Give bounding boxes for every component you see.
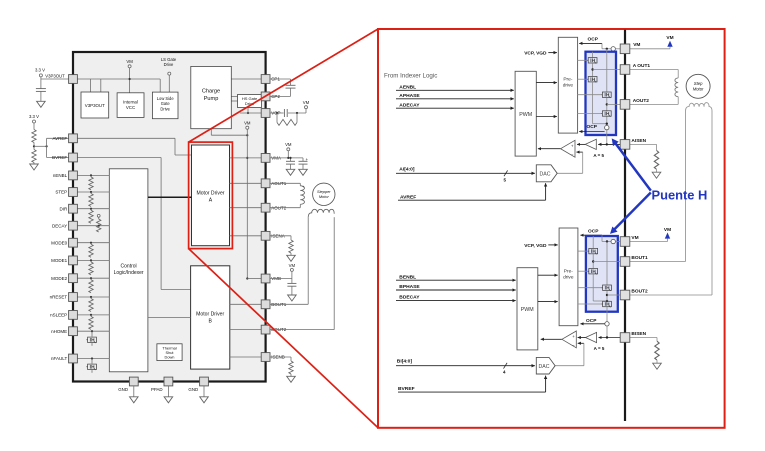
svg-text:nFAULT: nFAULT xyxy=(51,356,67,361)
svg-text:3.3 V: 3.3 V xyxy=(29,114,39,119)
svg-text:BPHASE: BPHASE xyxy=(399,284,420,290)
svg-text:From Indexer Logic: From Indexer Logic xyxy=(384,73,437,80)
svg-text:VM: VM xyxy=(244,120,251,125)
svg-text:VM: VM xyxy=(664,227,671,233)
svg-text:VM: VM xyxy=(631,235,638,241)
svg-text:AI[4:0]: AI[4:0] xyxy=(399,166,415,172)
svg-text:VCP, VGD: VCP, VGD xyxy=(524,243,547,249)
svg-text:OCP: OCP xyxy=(588,229,599,235)
svg-text:+: + xyxy=(572,334,575,339)
svg-text:−: − xyxy=(572,342,575,347)
svg-text:OCP: OCP xyxy=(587,124,598,130)
svg-text:Logic/Indexer: Logic/Indexer xyxy=(114,270,144,276)
svg-text:drive: drive xyxy=(563,274,574,280)
svg-text:AENBL: AENBL xyxy=(399,84,416,90)
svg-text:AOUT2: AOUT2 xyxy=(633,98,650,104)
svg-text:AVREF: AVREF xyxy=(53,136,68,141)
svg-text:BDECAY: BDECAY xyxy=(399,295,420,301)
svg-text:B: B xyxy=(208,319,212,325)
svg-text:BVREF: BVREF xyxy=(398,386,415,392)
svg-text:PWM: PWM xyxy=(521,307,534,313)
svg-text:AVREF: AVREF xyxy=(400,194,416,200)
svg-text:Motor: Motor xyxy=(319,194,330,199)
svg-text:VCC: VCC xyxy=(126,105,135,110)
svg-text:DIR: DIR xyxy=(59,206,68,211)
svg-text:Puente H: Puente H xyxy=(652,188,708,203)
svg-text:A = 5: A = 5 xyxy=(594,346,605,351)
svg-text:STEP: STEP xyxy=(55,190,67,195)
svg-text:+: + xyxy=(571,143,574,148)
svg-text:V3P3OUT: V3P3OUT xyxy=(85,103,105,108)
svg-text:Control: Control xyxy=(121,264,137,270)
svg-text:BOUT2: BOUT2 xyxy=(631,288,648,294)
svg-text:Motor Driver: Motor Driver xyxy=(196,312,224,318)
svg-text:A = 5: A = 5 xyxy=(593,153,604,158)
svg-text:GND: GND xyxy=(118,387,128,392)
svg-text:VM: VM xyxy=(303,100,310,105)
svg-text:Step: Step xyxy=(694,81,703,86)
svg-text:VM: VM xyxy=(666,35,673,41)
svg-text:Drive: Drive xyxy=(160,106,170,111)
svg-text:A OUT1: A OUT1 xyxy=(633,63,651,69)
svg-text:nSLEEP: nSLEEP xyxy=(50,313,67,318)
svg-text:V3P3OUT: V3P3OUT xyxy=(45,73,65,78)
svg-text:OCP: OCP xyxy=(586,318,597,324)
svg-text:BENBL: BENBL xyxy=(399,274,416,280)
svg-text:Pump: Pump xyxy=(204,96,219,102)
svg-text:Down: Down xyxy=(165,354,175,359)
svg-text:Pre-: Pre- xyxy=(563,77,572,83)
svg-text:Pre-: Pre- xyxy=(564,268,573,274)
svg-text:MODE0: MODE0 xyxy=(51,240,68,245)
svg-text:Motor: Motor xyxy=(693,87,704,92)
svg-text:VCP, VGD: VCP, VGD xyxy=(524,51,547,57)
svg-text:DAC: DAC xyxy=(540,172,551,178)
svg-text:nRESET: nRESET xyxy=(50,295,68,300)
svg-text:OCP: OCP xyxy=(588,37,599,43)
svg-text:VM: VM xyxy=(285,142,292,147)
svg-text:PPAD: PPAD xyxy=(151,387,163,392)
svg-text:nENBL: nENBL xyxy=(53,173,68,178)
svg-text:DECAY: DECAY xyxy=(52,223,67,228)
svg-text:A: A xyxy=(209,198,213,204)
svg-text:PWM: PWM xyxy=(519,112,532,118)
svg-text:−: − xyxy=(571,152,574,157)
svg-text:VM: VM xyxy=(633,42,640,48)
svg-text:GND: GND xyxy=(188,387,198,392)
svg-text:BVREF: BVREF xyxy=(52,155,67,160)
svg-text:VM: VM xyxy=(289,263,296,268)
svg-text:APHASE: APHASE xyxy=(399,93,420,99)
svg-text:VM: VM xyxy=(126,59,133,64)
svg-text:BI[4:0]: BI[4:0] xyxy=(397,359,413,365)
svg-text:3.3 V: 3.3 V xyxy=(35,68,45,73)
svg-text:Motor Driver: Motor Driver xyxy=(196,191,224,197)
svg-text:ADECAY: ADECAY xyxy=(399,102,420,108)
svg-text:Charge: Charge xyxy=(202,89,220,95)
svg-text:AISEN: AISEN xyxy=(631,138,646,144)
svg-text:MODE2: MODE2 xyxy=(51,276,68,281)
svg-text:drive: drive xyxy=(563,83,574,89)
svg-text:DAC: DAC xyxy=(539,364,550,370)
svg-text:Internal: Internal xyxy=(123,100,138,105)
svg-text:MODE1: MODE1 xyxy=(51,258,68,263)
svg-text:BISEN: BISEN xyxy=(631,331,646,337)
svg-text:nHOME: nHOME xyxy=(51,329,67,334)
svg-text:Drive: Drive xyxy=(164,62,174,67)
svg-text:BOUT1: BOUT1 xyxy=(631,255,648,261)
